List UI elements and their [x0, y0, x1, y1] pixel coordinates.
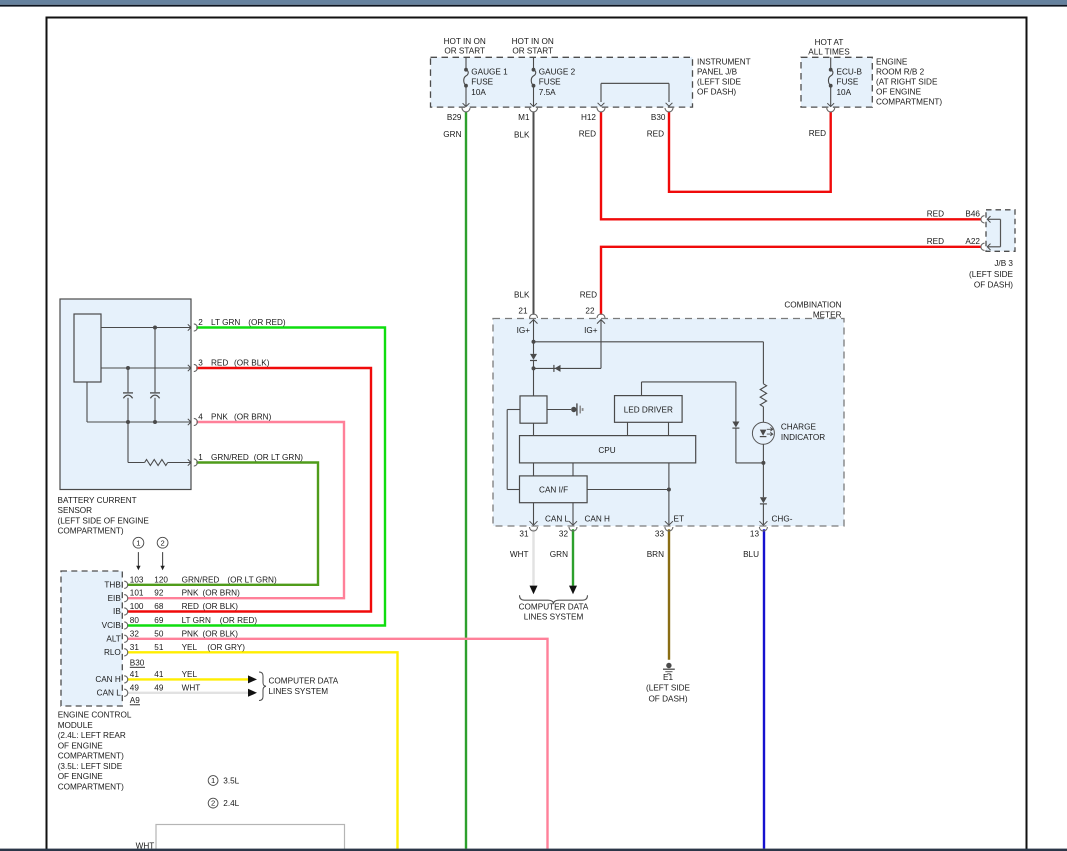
svg-text:LT GRN: LT GRN — [182, 616, 211, 625]
svg-text:RED: RED — [809, 129, 826, 138]
svg-text:OF DASH): OF DASH) — [974, 280, 1013, 289]
svg-text:CPU: CPU — [598, 446, 615, 455]
svg-text:RED: RED — [927, 237, 944, 246]
svg-text:41: 41 — [130, 670, 140, 679]
svg-text:OF DASH): OF DASH) — [648, 694, 687, 703]
svg-text:92: 92 — [154, 589, 164, 598]
svg-text:ENGINE CONTROL: ENGINE CONTROL — [58, 711, 132, 720]
svg-text:VCIB: VCIB — [102, 621, 122, 630]
svg-text:10A: 10A — [471, 88, 486, 97]
svg-text:B30: B30 — [130, 659, 145, 668]
svg-text:BLK: BLK — [514, 130, 530, 139]
svg-text:ALT: ALT — [106, 634, 120, 643]
svg-text:(OR BRN): (OR BRN) — [203, 589, 241, 598]
svg-text:33: 33 — [655, 529, 665, 538]
svg-text:RLO: RLO — [104, 648, 121, 657]
svg-text:IG+: IG+ — [517, 326, 531, 335]
svg-text:COMPARTMENT): COMPARTMENT) — [58, 752, 124, 761]
svg-text:(3.5L: LEFT SIDE: (3.5L: LEFT SIDE — [58, 762, 123, 771]
svg-text:32: 32 — [130, 629, 140, 638]
svg-text:ROOM R/B 2: ROOM R/B 2 — [876, 68, 925, 77]
svg-text:2: 2 — [198, 318, 203, 327]
svg-text:69: 69 — [154, 616, 164, 625]
svg-text:103: 103 — [130, 575, 144, 584]
svg-text:PNK: PNK — [182, 589, 199, 598]
svg-text:ALL TIMES: ALL TIMES — [808, 48, 850, 57]
svg-text:(OR RED): (OR RED) — [220, 616, 258, 625]
svg-text:2: 2 — [160, 538, 164, 547]
svg-text:49: 49 — [130, 683, 140, 692]
svg-text:LINES SYSTEM: LINES SYSTEM — [524, 613, 584, 622]
svg-text:B29: B29 — [447, 113, 462, 122]
svg-text:COMPUTER DATA: COMPUTER DATA — [269, 677, 339, 686]
svg-text:RED: RED — [927, 209, 944, 218]
svg-text:RED: RED — [182, 602, 199, 611]
svg-text:4: 4 — [198, 412, 203, 421]
svg-text:GAUGE 2: GAUGE 2 — [539, 68, 576, 77]
svg-text:(OR BRN): (OR BRN) — [234, 412, 272, 421]
svg-text:J/B 3: J/B 3 — [994, 259, 1013, 268]
svg-text:21: 21 — [518, 307, 528, 316]
svg-text:RED: RED — [647, 129, 664, 138]
svg-text:(OR BLK): (OR BLK) — [234, 358, 270, 367]
svg-text:(OR LT GRN): (OR LT GRN) — [254, 453, 304, 462]
svg-text:HOT IN ON: HOT IN ON — [512, 37, 554, 46]
svg-text:(LEFT SIDE: (LEFT SIDE — [969, 270, 1014, 279]
svg-text:10A: 10A — [837, 88, 852, 97]
svg-text:FUSE: FUSE — [471, 78, 493, 87]
svg-text:49: 49 — [154, 683, 164, 692]
svg-text:METER: METER — [813, 310, 842, 319]
svg-text:OF DASH): OF DASH) — [697, 88, 736, 97]
svg-text:50: 50 — [154, 629, 164, 638]
svg-text:IB: IB — [113, 607, 121, 616]
svg-text:H12: H12 — [581, 113, 596, 122]
svg-text:A9: A9 — [130, 696, 140, 705]
svg-text:LED DRIVER: LED DRIVER — [624, 405, 673, 414]
svg-text:GRN/RED: GRN/RED — [211, 453, 249, 462]
svg-text:1: 1 — [211, 776, 215, 785]
svg-text:22: 22 — [585, 307, 595, 316]
svg-text:100: 100 — [130, 602, 144, 611]
svg-text:INDICATOR: INDICATOR — [781, 433, 825, 442]
svg-text:ECU-B: ECU-B — [837, 68, 863, 77]
svg-text:WHT: WHT — [182, 683, 201, 692]
svg-text:COMPARTMENT): COMPARTMENT) — [58, 527, 124, 536]
svg-text:LT GRN: LT GRN — [211, 318, 240, 327]
svg-text:PNK: PNK — [211, 412, 228, 421]
svg-text:COMBINATION: COMBINATION — [784, 301, 841, 310]
svg-text:1: 1 — [136, 538, 140, 547]
svg-text:13: 13 — [750, 529, 760, 538]
svg-text:1: 1 — [198, 453, 203, 462]
svg-text:BRN: BRN — [647, 550, 664, 559]
svg-text:CHARGE: CHARGE — [781, 423, 817, 432]
svg-text:(OR LT GRN): (OR LT GRN) — [227, 575, 277, 584]
svg-text:YEL: YEL — [182, 643, 198, 652]
svg-text:OF ENGINE: OF ENGINE — [58, 772, 104, 781]
svg-text:(LEFT SIDE OF ENGINE: (LEFT SIDE OF ENGINE — [58, 516, 150, 525]
svg-text:120: 120 — [154, 575, 168, 584]
svg-text:31: 31 — [519, 529, 529, 538]
svg-text:3: 3 — [198, 358, 203, 367]
svg-text:CAN I/F: CAN I/F — [539, 486, 568, 495]
svg-text:51: 51 — [154, 643, 164, 652]
svg-text:HOT AT: HOT AT — [815, 38, 844, 47]
svg-text:GRN: GRN — [443, 130, 461, 139]
svg-text:SENSOR: SENSOR — [58, 506, 93, 515]
svg-text:COMPUTER DATA: COMPUTER DATA — [519, 602, 589, 611]
svg-text:THB: THB — [104, 580, 121, 589]
svg-text:OF ENGINE: OF ENGINE — [876, 88, 922, 97]
svg-text:COMPARTMENT): COMPARTMENT) — [876, 98, 942, 107]
svg-text:(OR BLK): (OR BLK) — [203, 629, 239, 638]
svg-text:32: 32 — [559, 529, 569, 538]
svg-text:68: 68 — [154, 602, 164, 611]
svg-text:(LEFT SIDE: (LEFT SIDE — [646, 684, 691, 693]
svg-text:CHG-: CHG- — [772, 515, 793, 524]
svg-text:OF ENGINE: OF ENGINE — [58, 741, 104, 750]
svg-text:BLU: BLU — [743, 550, 759, 559]
svg-text:7.5A: 7.5A — [539, 88, 556, 97]
svg-text:(2.4L: LEFT REAR: (2.4L: LEFT REAR — [58, 731, 126, 740]
svg-text:CAN L: CAN L — [97, 688, 122, 697]
svg-text:CAN H: CAN H — [585, 515, 611, 524]
svg-text:FUSE: FUSE — [837, 78, 859, 87]
svg-text:GRN: GRN — [550, 550, 568, 559]
svg-text:101: 101 — [130, 589, 144, 598]
svg-text:OR START: OR START — [444, 47, 485, 56]
svg-text:(OR RED): (OR RED) — [248, 318, 286, 327]
svg-text:A22: A22 — [965, 237, 980, 246]
svg-text:(OR GRY): (OR GRY) — [207, 643, 245, 652]
svg-text:80: 80 — [130, 616, 140, 625]
svg-text:ET: ET — [674, 515, 684, 524]
svg-text:ENGINE: ENGINE — [876, 58, 908, 67]
svg-text:M1: M1 — [518, 113, 530, 122]
svg-text:GAUGE 1: GAUGE 1 — [471, 68, 508, 77]
svg-text:BLK: BLK — [514, 290, 530, 299]
svg-text:31: 31 — [130, 643, 140, 652]
svg-text:B30: B30 — [651, 113, 666, 122]
svg-text:FUSE: FUSE — [539, 78, 561, 87]
svg-text:2: 2 — [211, 799, 215, 808]
svg-text:WHT: WHT — [510, 550, 529, 559]
svg-text:E1: E1 — [663, 673, 673, 682]
svg-text:EIB: EIB — [108, 594, 122, 603]
svg-text:INSTRUMENT: INSTRUMENT — [697, 58, 751, 67]
svg-text:41: 41 — [154, 670, 164, 679]
svg-text:HOT IN ON: HOT IN ON — [444, 37, 486, 46]
svg-text:GRN/RED: GRN/RED — [182, 575, 220, 584]
svg-text:(LEFT SIDE: (LEFT SIDE — [697, 78, 742, 87]
svg-text:RED: RED — [579, 129, 596, 138]
svg-text:(OR BLK): (OR BLK) — [203, 602, 239, 611]
svg-text:PANEL J/B: PANEL J/B — [697, 68, 738, 77]
svg-text:BATTERY CURRENT: BATTERY CURRENT — [58, 496, 137, 505]
svg-text:RED: RED — [580, 290, 597, 299]
svg-text:3.5L: 3.5L — [223, 776, 239, 785]
svg-text:MODULE: MODULE — [58, 721, 94, 730]
svg-text:LINES SYSTEM: LINES SYSTEM — [269, 687, 329, 696]
svg-text:IG+: IG+ — [584, 326, 598, 335]
svg-text:COMPARTMENT): COMPARTMENT) — [58, 782, 124, 791]
svg-text:CAN L: CAN L — [545, 515, 570, 524]
svg-text:CAN H: CAN H — [95, 675, 121, 684]
svg-text:(AT RIGHT SIDE: (AT RIGHT SIDE — [876, 78, 938, 87]
svg-text:OR START: OR START — [512, 47, 553, 56]
svg-text:YEL: YEL — [182, 670, 198, 679]
svg-text:RED: RED — [211, 358, 228, 367]
svg-text:2.4L: 2.4L — [223, 799, 239, 808]
svg-text:B46: B46 — [965, 209, 980, 218]
svg-text:PNK: PNK — [182, 629, 199, 638]
